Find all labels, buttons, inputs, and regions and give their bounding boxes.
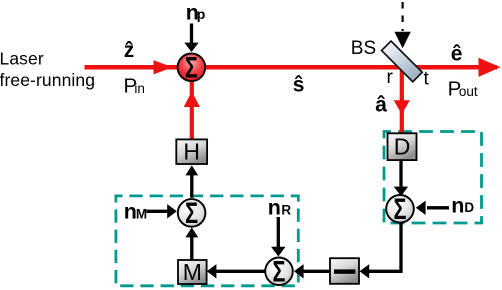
svg-text:out: out <box>459 84 478 99</box>
arrow sum node M to H box <box>185 165 198 197</box>
svg-text:n: n <box>451 193 464 217</box>
label n_D <box>451 193 474 217</box>
sum node D (gray sigma) <box>386 192 414 226</box>
label P_in <box>124 75 145 98</box>
svg-text:R: R <box>281 202 291 217</box>
wire: red feedback H to sum node P <box>190 81 194 140</box>
label Laser free-running <box>0 48 95 90</box>
arrow n_M into sum node M <box>147 204 177 218</box>
svg-text:Σ: Σ <box>394 192 407 226</box>
sum node R (gray sigma) <box>265 254 293 288</box>
label n_p <box>186 0 205 24</box>
arrow minus box to sum node R <box>294 264 330 278</box>
wire: main red beam line <box>85 65 498 70</box>
svg-text:Laser: Laser <box>0 48 44 68</box>
svg-text:H: H <box>183 139 200 165</box>
detection dashed box right (D, sum group) <box>384 132 482 224</box>
label P_out <box>448 77 478 100</box>
svg-text:D: D <box>464 200 474 215</box>
wire: sum node D down and left to minus box <box>366 223 401 272</box>
svg-text:r: r <box>387 67 394 88</box>
svg-text:ê: ê <box>451 42 463 65</box>
svg-text:free-running: free-running <box>0 70 95 90</box>
svg-text:BS: BS <box>351 38 376 59</box>
sum node P (red sigma) <box>178 50 206 84</box>
arrowhead into sum node P <box>154 60 173 74</box>
wire: red beam BS to D <box>400 64 404 134</box>
box M measurement filter <box>178 259 207 285</box>
arrowhead beam down to D <box>394 100 410 114</box>
dashed vacuum input arrow into BS <box>394 2 410 48</box>
arrow sum node R to M box <box>207 264 265 278</box>
arrow n_R into sum node R <box>271 217 285 256</box>
feedback dashed box left (n_M, sum, M, sum group) <box>116 196 298 286</box>
output arrowhead e <box>479 58 501 77</box>
svg-text:Σ: Σ <box>273 254 286 288</box>
svg-text:t: t <box>424 69 430 90</box>
svg-text:Σ: Σ <box>185 50 198 84</box>
arrowhead feedback up into sum node P <box>184 92 200 108</box>
svg-text:n: n <box>268 196 281 220</box>
arrow M box to sum node M <box>185 227 198 259</box>
svg-text:D: D <box>394 134 411 160</box>
label n_R <box>268 196 292 220</box>
arrow n_D into sum node D <box>416 201 449 215</box>
arrowhead into minus box <box>360 264 370 278</box>
svg-text:Σ: Σ <box>185 196 198 230</box>
svg-text:p: p <box>197 6 206 22</box>
svg-text:ŝ: ŝ <box>293 74 305 97</box>
box minus (sign inverter) <box>330 258 359 284</box>
svg-text:M: M <box>136 206 147 221</box>
box H controller <box>176 139 207 165</box>
svg-text:M: M <box>183 259 202 285</box>
svg-text:â: â <box>375 93 387 116</box>
svg-text:ẑ: ẑ <box>124 39 135 62</box>
beam splitter BS <box>382 41 423 82</box>
box D detector <box>388 133 417 160</box>
arrow n_p into sum node P <box>184 24 198 53</box>
sum node M (gray sigma) <box>178 196 206 230</box>
svg-text:in: in <box>134 81 145 96</box>
label n_M <box>124 200 147 224</box>
arrow D to sum node D <box>394 160 408 196</box>
